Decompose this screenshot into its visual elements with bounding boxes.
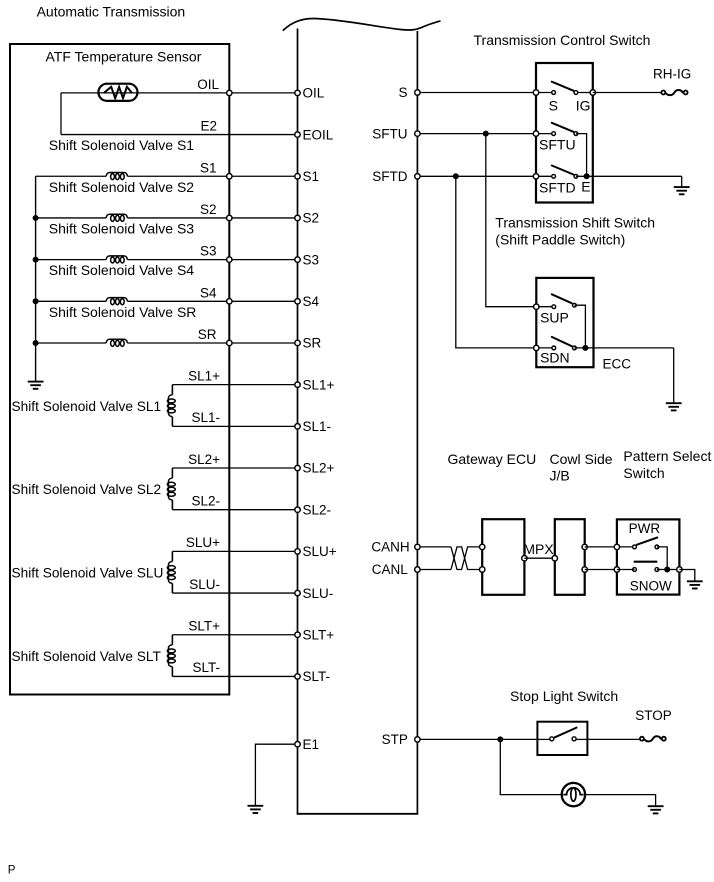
svg-text:SLT-: SLT- [192, 660, 220, 675]
pin IG at control switch box edge [590, 90, 595, 95]
pin SL2+ at ECM [295, 465, 300, 470]
Cowl Side J/B box [555, 519, 585, 595]
svg-text:OIL: OIL [197, 77, 219, 92]
svg-text:Shift Solenoid Valve SL1: Shift Solenoid Valve SL1 [12, 399, 162, 414]
svg-text:E2: E2 [200, 119, 217, 134]
pin CANL at gateway [480, 567, 485, 572]
wire: SFTD contact to E and ground [576, 175, 682, 177]
svg-text:PWR: PWR [629, 521, 661, 536]
switch SFTD [536, 175, 554, 177]
svg-text:EOIL: EOIL [303, 127, 334, 142]
svg-text:Stop Light Switch: Stop Light Switch [510, 688, 618, 704]
wire: CANL with twisted pair [417, 569, 451, 571]
pin OIL at sensor box edge [227, 90, 232, 95]
wire: SFTD to control switch [417, 175, 536, 177]
svg-text:S2: S2 [303, 211, 320, 226]
connector RH-IG [666, 90, 683, 95]
wire: S2 row [36, 217, 107, 219]
wire: CANH with twisted pair [417, 546, 451, 548]
wire: SUP contact to SDN node [574, 305, 585, 348]
pin MPX at J/B [552, 556, 557, 561]
svg-text:Shift Solenoid Valve S3: Shift Solenoid Valve S3 [49, 221, 194, 237]
solenoid coil S1 [106, 173, 127, 177]
svg-text:Shift Solenoid Valve SLU: Shift Solenoid Valve SLU [12, 566, 164, 581]
svg-text:SNOW: SNOW [630, 578, 672, 593]
solenoid coil SL2 [171, 468, 173, 478]
ground: stop light bulb [648, 806, 664, 813]
junction node on solenoid ground bus at S2 [33, 215, 39, 221]
svg-text:Shift Solenoid Valve SR: Shift Solenoid Valve SR [49, 304, 197, 320]
pin S1 at ECM [295, 174, 300, 179]
pin SFTU at ECM [415, 131, 420, 136]
svg-text:MPX: MPX [523, 541, 554, 557]
wire: thermistor left lead [61, 92, 298, 94]
svg-text:SFTD: SFTD [372, 169, 407, 184]
pin OIL at ECM [295, 90, 300, 95]
wire: SFTU branch down to SUP [486, 134, 537, 307]
wire: E1 to ground [255, 744, 297, 806]
wire: S1 row [36, 175, 107, 177]
pin STP at ECM [415, 737, 420, 742]
svg-text:ATF Temperature Sensor: ATF Temperature Sensor [46, 48, 202, 64]
pin SL2- at ECM [295, 507, 300, 512]
svg-text:S: S [549, 98, 558, 114]
svg-text:SR: SR [198, 327, 217, 342]
wire: S to control switch [417, 92, 536, 94]
wire: stop light switch to STOP [587, 738, 639, 740]
junction node on SFTU wire [483, 131, 489, 137]
svg-text:Transmission Control Switch: Transmission Control Switch [474, 32, 651, 48]
Gateway ECU box [482, 519, 524, 595]
svg-text:(Shift Paddle Switch): (Shift Paddle Switch) [495, 232, 625, 248]
wire: PWR contact down to SNOW row [657, 547, 667, 570]
wire: STP to stop light switch [417, 738, 537, 740]
switch PWR [617, 546, 635, 548]
svg-text:P: P [8, 865, 16, 877]
svg-text:SL1-: SL1- [191, 410, 220, 425]
svg-text:E1: E1 [303, 737, 320, 752]
svg-text:SL2-: SL2- [303, 502, 332, 517]
switch SDN [536, 347, 554, 349]
pin CANL at ECM [415, 567, 420, 572]
junction node on SFTD wire [453, 173, 459, 179]
pin S1 at sensor box edge [227, 174, 232, 179]
junction node E [584, 173, 590, 179]
pin CANH at gateway [480, 544, 485, 549]
stop light bulb [562, 783, 585, 806]
wire: J/B to pattern switch (bottom) [585, 569, 617, 571]
svg-text:SL2+: SL2+ [303, 461, 335, 476]
pin SL1+ at ECM [295, 382, 300, 387]
wire: J/B to pattern switch (top) [585, 546, 617, 548]
svg-text:SUP: SUP [540, 309, 569, 325]
svg-text:Cowl Side: Cowl Side [550, 451, 613, 467]
solenoid coil S3 [106, 256, 127, 260]
svg-text:SLT-: SLT- [303, 669, 331, 684]
svg-text:OIL: OIL [303, 86, 325, 101]
wire: E2 to EOIL [61, 134, 298, 136]
pin S2 at sensor box edge [227, 215, 232, 220]
switch stop light [537, 738, 551, 740]
ATF Temperature Sensor box [10, 44, 229, 695]
svg-text:S3: S3 [200, 244, 217, 259]
junction node SDN output [582, 345, 588, 351]
svg-text:STP: STP [382, 732, 408, 747]
junction node on solenoid ground bus at S3 [33, 257, 39, 263]
svg-text:IG: IG [576, 98, 591, 114]
svg-text:S1: S1 [200, 160, 217, 175]
wire: S4 row [36, 300, 107, 302]
svg-text:J/B: J/B [550, 468, 570, 484]
wire: MPX [524, 557, 554, 559]
ground: control switch E [674, 187, 690, 194]
svg-text:SLT+: SLT+ [303, 627, 335, 642]
pin SLT- at ECM [295, 674, 300, 679]
wire: SR row [36, 342, 107, 344]
svg-text:S4: S4 [200, 285, 217, 300]
ECM torn-edge squiggle [283, 19, 441, 31]
pin SL1- at ECM [295, 424, 300, 429]
svg-text:SLU-: SLU- [303, 586, 334, 601]
svg-text:SFTU: SFTU [539, 136, 576, 152]
wire: SFTU contact to E node [576, 134, 587, 177]
solenoid coil SLT [171, 635, 173, 645]
wire: SL2+ row [172, 467, 297, 469]
svg-text:SL1+: SL1+ [303, 377, 335, 392]
ground: solenoid valves [28, 382, 44, 389]
svg-text:S3: S3 [303, 252, 320, 267]
pin E1 at ECM [295, 742, 300, 747]
svg-text:Shift Solenoid Valve SL2: Shift Solenoid Valve SL2 [12, 482, 162, 497]
svg-text:SLU+: SLU+ [303, 544, 337, 559]
pin S3 at sensor box edge [227, 257, 232, 262]
pin MPX at gateway [522, 556, 527, 561]
pin S4 at sensor box edge [227, 299, 232, 304]
svg-text:Shift Solenoid Valve SLT: Shift Solenoid Valve SLT [12, 649, 162, 664]
pin SLU+ at ECM [295, 549, 300, 554]
solenoid coil SR [106, 339, 127, 343]
ECM left boundary wire [297, 29, 299, 814]
svg-text:SL2-: SL2- [191, 494, 220, 509]
pin SLT+ at ECM [295, 632, 300, 637]
svg-text:SR: SR [303, 336, 322, 351]
pin SR at ECM [295, 340, 300, 345]
wire: SL1- row [172, 425, 297, 427]
Transmission Shift Switch box [536, 278, 593, 367]
pin S at ECM [415, 90, 420, 95]
junction node on STP wire [497, 736, 503, 742]
svg-text:CANL: CANL [372, 562, 409, 577]
svg-text:SLU-: SLU- [189, 577, 220, 592]
pin S4 at ECM [295, 299, 300, 304]
svg-text:ECC: ECC [603, 357, 632, 372]
svg-text:Pattern Select: Pattern Select [623, 448, 711, 464]
junction node on solenoid ground bus at SR [33, 340, 39, 346]
svg-text:Automatic Transmission: Automatic Transmission [37, 4, 186, 20]
pin CANH at ECM [415, 544, 420, 549]
wire: SL1+ row [172, 384, 297, 386]
wire: SDN to ECC ground [574, 347, 673, 349]
pin SR at sensor box edge [227, 340, 232, 345]
wire: SL2- row [172, 509, 297, 511]
ECM bottom boundary wire [297, 813, 419, 815]
svg-text:Shift Solenoid Valve S2: Shift Solenoid Valve S2 [49, 179, 194, 195]
wire: S3 row [36, 259, 107, 261]
svg-text:Transmission Shift Switch: Transmission Shift Switch [495, 214, 655, 230]
pin pattern switch output [677, 567, 682, 572]
svg-text:Shift Solenoid Valve S4: Shift Solenoid Valve S4 [49, 262, 194, 278]
wire: STP branch down to bulb [500, 739, 561, 794]
junction node pattern switch output [664, 567, 670, 573]
wire: SFTU to control switch [417, 133, 536, 135]
svg-text:CANH: CANH [371, 540, 409, 555]
junction node on solenoid ground bus at S4 [33, 298, 39, 304]
svg-text:S4: S4 [303, 294, 320, 309]
wire: solenoid ground bus [35, 176, 37, 381]
wire: IG to RH-IG [593, 92, 661, 94]
wire: pattern switch to ground [679, 570, 694, 582]
pin SFTD at ECM [415, 174, 420, 179]
svg-text:SLT+: SLT+ [188, 619, 220, 634]
wire: SFTD branch down to SDN [456, 176, 537, 348]
svg-text:RH-IG: RH-IG [653, 66, 691, 81]
ECM right boundary wire [416, 31, 418, 814]
solenoid coil S4 [106, 298, 127, 302]
wire: thermistor to E2 vertical [60, 93, 62, 135]
svg-text:Switch: Switch [623, 465, 664, 481]
pin out H at J/B [582, 544, 587, 549]
svg-text:SL2+: SL2+ [188, 452, 220, 467]
pin S2 at ECM [295, 215, 300, 220]
svg-text:Gateway ECU: Gateway ECU [448, 451, 537, 467]
svg-text:Shift Solenoid Valve S1: Shift Solenoid Valve S1 [49, 137, 194, 153]
ground: E1 [248, 806, 264, 813]
switch S-IG [536, 92, 554, 94]
pin out L at J/B [582, 567, 587, 572]
svg-text:S1: S1 [303, 169, 320, 184]
svg-text:S: S [398, 85, 407, 100]
Pattern Select Switch box [617, 519, 680, 594]
pin EOIL at ECM [295, 132, 300, 137]
ground: pattern select switch [687, 581, 703, 588]
Transmission Control Switch box [536, 63, 593, 203]
svg-text:SL1+: SL1+ [188, 368, 220, 383]
svg-text:SL1-: SL1- [303, 419, 332, 434]
svg-text:E: E [581, 179, 590, 195]
wire: SLT+ row [172, 634, 297, 636]
svg-text:SLU+: SLU+ [186, 535, 220, 550]
solenoid coil SL1 [171, 385, 173, 395]
svg-text:STOP: STOP [635, 708, 672, 723]
pin S3 at ECM [295, 257, 300, 262]
pin SLU- at ECM [295, 590, 300, 595]
ATF temperature sensor thermistor [98, 84, 137, 101]
connector STOP [645, 736, 662, 741]
svg-text:S2: S2 [200, 202, 217, 217]
svg-text:SDN: SDN [540, 349, 570, 365]
wire: SLU+ row [172, 550, 297, 552]
switch SUP [536, 306, 554, 308]
wire: bulb to ground [585, 795, 656, 807]
Stop Light Switch box [537, 722, 587, 755]
switch SFTU [536, 133, 554, 135]
wire: SLT- row [172, 675, 297, 677]
switch SNOW (closed) [614, 567, 619, 572]
svg-text:SFTD: SFTD [539, 180, 576, 196]
ground: ECC [666, 403, 682, 410]
solenoid coil S2 [106, 214, 127, 218]
solenoid coil SLU [171, 551, 173, 561]
wire: SLU- row [172, 592, 297, 594]
svg-text:SFTU: SFTU [372, 126, 407, 141]
wire: SNOW row stubs [617, 569, 635, 571]
